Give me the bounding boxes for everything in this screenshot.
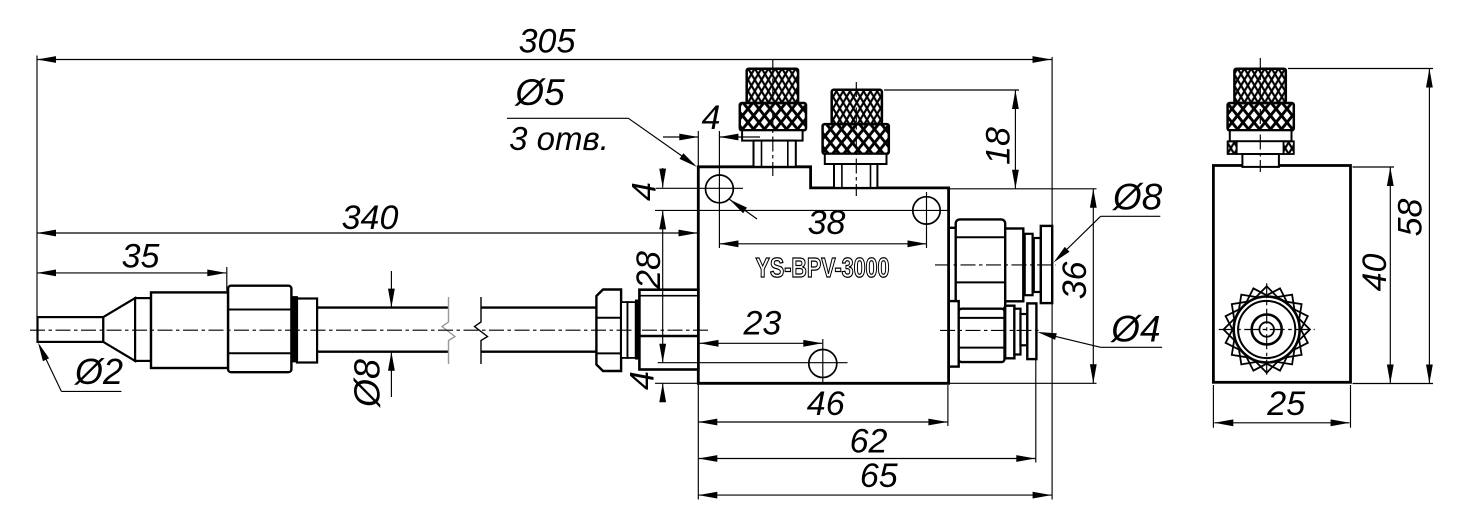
svg-text:35: 35: [122, 238, 160, 276]
svg-text:305: 305: [519, 23, 576, 61]
svg-text:58: 58: [1391, 199, 1429, 237]
svg-text:18: 18: [979, 127, 1017, 165]
svg-text:23: 23: [742, 305, 781, 343]
svg-text:28: 28: [630, 251, 668, 290]
svg-text:4: 4: [623, 371, 661, 390]
svg-text:340: 340: [342, 199, 399, 237]
svg-text:62: 62: [850, 423, 888, 461]
svg-text:3 отв.: 3 отв.: [509, 120, 609, 157]
svg-text:25: 25: [1266, 385, 1305, 423]
svg-text:40: 40: [1356, 254, 1394, 292]
svg-text:Ø8: Ø8: [346, 359, 387, 408]
svg-text:Ø4: Ø4: [1109, 309, 1160, 350]
svg-text:Ø5: Ø5: [513, 72, 565, 113]
svg-text:Ø8: Ø8: [1111, 177, 1163, 218]
svg-text:36: 36: [1056, 261, 1094, 299]
svg-text:46: 46: [807, 385, 845, 423]
svg-text:YS-BPV-3000: YS-BPV-3000: [756, 252, 890, 283]
svg-text:4: 4: [702, 99, 721, 137]
svg-text:38: 38: [808, 204, 846, 242]
svg-text:Ø2: Ø2: [74, 351, 123, 392]
svg-text:65: 65: [860, 457, 898, 495]
svg-text:4: 4: [625, 182, 663, 201]
